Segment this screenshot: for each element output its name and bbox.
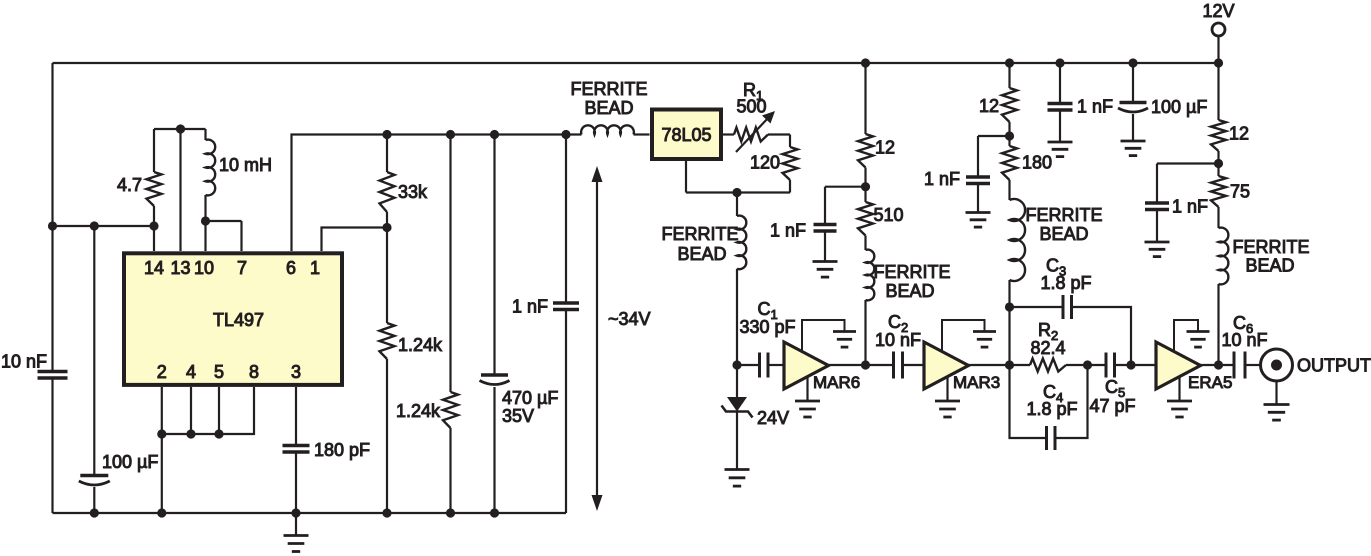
svg-text:100 µF: 100 µF bbox=[1151, 97, 1207, 117]
svg-text:MAR3: MAR3 bbox=[953, 373, 1000, 392]
svg-text:10: 10 bbox=[194, 258, 214, 278]
svg-text:12: 12 bbox=[979, 96, 999, 116]
svg-text:13: 13 bbox=[170, 258, 190, 278]
svg-text:BEAD: BEAD bbox=[1245, 256, 1294, 276]
svg-text:180: 180 bbox=[1022, 153, 1052, 173]
svg-text:47 pF: 47 pF bbox=[1089, 396, 1135, 416]
svg-text:75: 75 bbox=[1230, 182, 1250, 202]
svg-text:78L05: 78L05 bbox=[661, 125, 711, 145]
svg-text:FERRITE: FERRITE bbox=[1025, 205, 1102, 225]
svg-text:1.8 pF: 1.8 pF bbox=[1040, 273, 1091, 293]
svg-text:TL497: TL497 bbox=[213, 310, 264, 330]
svg-text:5: 5 bbox=[214, 362, 224, 382]
svg-text:BEAD: BEAD bbox=[584, 98, 633, 118]
svg-text:6: 6 bbox=[286, 258, 296, 278]
svg-text:FERRITE: FERRITE bbox=[873, 262, 950, 282]
svg-text:1 nF: 1 nF bbox=[1077, 97, 1113, 117]
svg-text:180 pF: 180 pF bbox=[314, 440, 370, 460]
svg-text:14: 14 bbox=[144, 258, 164, 278]
svg-text:MAR6: MAR6 bbox=[813, 373, 860, 392]
svg-text:12: 12 bbox=[875, 138, 895, 158]
svg-text:10 mH: 10 mH bbox=[219, 155, 272, 175]
svg-text:FERRITE: FERRITE bbox=[1232, 237, 1309, 257]
svg-text:FERRITE: FERRITE bbox=[661, 224, 738, 244]
svg-text:1 nF: 1 nF bbox=[924, 169, 960, 189]
svg-text:470 µF: 470 µF bbox=[502, 388, 558, 408]
svg-text:1: 1 bbox=[310, 258, 320, 278]
svg-text:1.8 pF: 1.8 pF bbox=[1026, 399, 1077, 419]
svg-text:510: 510 bbox=[874, 205, 904, 225]
svg-text:12: 12 bbox=[1229, 124, 1249, 144]
svg-text:35V: 35V bbox=[502, 406, 534, 426]
svg-text:FERRITE: FERRITE bbox=[570, 79, 647, 99]
svg-text:~34V: ~34V bbox=[608, 309, 651, 329]
svg-text:BEAD: BEAD bbox=[885, 281, 934, 301]
svg-text:24V: 24V bbox=[757, 408, 789, 428]
svg-text:7: 7 bbox=[237, 258, 247, 278]
svg-text:ERA5: ERA5 bbox=[1188, 373, 1232, 392]
svg-text:3: 3 bbox=[291, 362, 301, 382]
svg-text:OUTPUT: OUTPUT bbox=[1297, 356, 1371, 376]
svg-text:82.4: 82.4 bbox=[1030, 338, 1065, 358]
svg-text:10 nF: 10 nF bbox=[875, 330, 921, 350]
svg-text:1 nF: 1 nF bbox=[770, 221, 806, 241]
svg-text:100 µF: 100 µF bbox=[102, 452, 158, 472]
svg-text:120: 120 bbox=[750, 153, 780, 173]
svg-text:1 nF: 1 nF bbox=[512, 297, 548, 317]
svg-text:33k: 33k bbox=[398, 182, 428, 202]
svg-text:12V: 12V bbox=[1202, 1, 1234, 21]
svg-text:10 nF: 10 nF bbox=[1, 352, 47, 372]
svg-text:4: 4 bbox=[186, 362, 196, 382]
svg-text:1.24k: 1.24k bbox=[396, 401, 441, 421]
svg-text:500: 500 bbox=[736, 97, 766, 117]
svg-text:10 nF: 10 nF bbox=[1221, 330, 1267, 350]
svg-text:1 nF: 1 nF bbox=[1172, 197, 1208, 217]
svg-text:BEAD: BEAD bbox=[677, 244, 726, 264]
svg-text:8: 8 bbox=[249, 362, 259, 382]
svg-text:330 pF: 330 pF bbox=[740, 317, 796, 337]
svg-text:1.24k: 1.24k bbox=[398, 335, 443, 355]
svg-text:2: 2 bbox=[157, 362, 167, 382]
svg-text:BEAD: BEAD bbox=[1039, 224, 1088, 244]
svg-text:4.7: 4.7 bbox=[117, 175, 142, 195]
